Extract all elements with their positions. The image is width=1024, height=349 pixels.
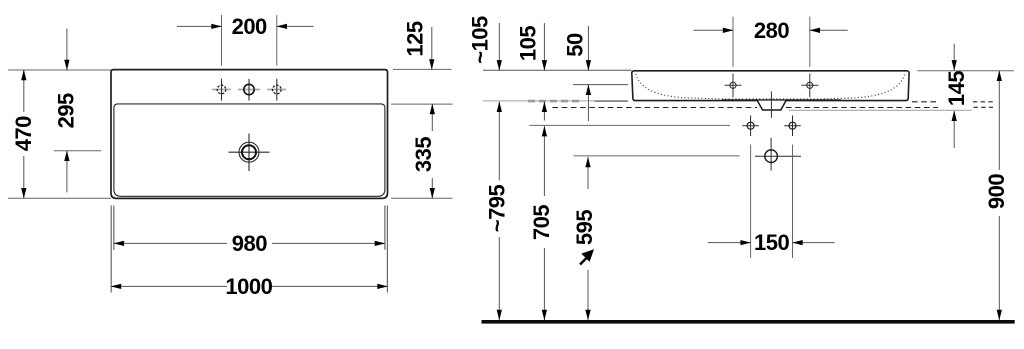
dim 595 xyxy=(587,157,589,189)
thick bottom middle segment xyxy=(722,99,841,101)
svg-text:900: 900 xyxy=(984,174,1009,209)
mounting hole left xyxy=(750,116,752,137)
basin body front xyxy=(632,71,909,101)
basin inner bowl xyxy=(114,104,385,196)
svg-text:145: 145 xyxy=(944,71,969,106)
faucet hole axis vertical lines xyxy=(221,79,223,101)
dim 150 xyxy=(708,242,751,244)
faucet mark left xyxy=(732,74,734,98)
mounting hole right xyxy=(792,116,794,137)
svg-text:470: 470 xyxy=(11,116,36,151)
svg-text:~105: ~105 xyxy=(468,16,493,64)
dim 295 xyxy=(66,29,68,71)
siphon outlet circle xyxy=(770,138,772,171)
svg-text:980: 980 xyxy=(232,231,267,256)
50 level line xyxy=(573,84,628,86)
drain axis line xyxy=(770,91,772,117)
svg-text:125: 125 xyxy=(402,21,427,56)
dim 280 xyxy=(694,29,734,31)
dim ~105 xyxy=(498,23,500,70)
floor line xyxy=(482,320,1015,324)
dim 200 extension lines xyxy=(221,15,223,66)
dim ~795 xyxy=(498,102,500,181)
dark segment before basin xyxy=(595,100,629,102)
dim 335 extension lines xyxy=(391,103,453,105)
faucet mark right xyxy=(809,74,811,98)
svg-text:1000: 1000 xyxy=(225,274,272,299)
svg-text:200: 200 xyxy=(232,14,267,39)
svg-text:~795: ~795 xyxy=(485,184,510,232)
svg-text:595: 595 xyxy=(572,210,597,245)
dim 900 xyxy=(998,71,1000,170)
drain outlet trapezoid xyxy=(757,101,786,110)
dim 280 extension lines xyxy=(732,17,734,67)
dim 595 extension line xyxy=(574,155,740,157)
dim 50 xyxy=(587,26,589,70)
svg-text:335: 335 xyxy=(411,137,436,172)
faucet hole middle xyxy=(244,84,254,94)
adjustable direction arrow xyxy=(580,258,587,265)
dim 105 xyxy=(543,23,545,70)
faucet hole left (dashed) xyxy=(217,85,226,94)
faucet hole axis gray lines xyxy=(212,89,231,91)
dim 335 xyxy=(431,104,433,131)
dim 145 xyxy=(953,44,955,71)
drain xyxy=(229,151,270,153)
svg-text:150: 150 xyxy=(754,230,789,255)
dim 980 xyxy=(114,242,227,244)
svg-text:105: 105 xyxy=(516,26,541,61)
dim 200 xyxy=(177,25,222,27)
svg-text:280: 280 xyxy=(754,18,789,43)
inner bowl dotted contour xyxy=(636,74,905,99)
dim 470 xyxy=(23,70,25,112)
dim 150 extension lines xyxy=(750,145,752,258)
dim 705 extension line xyxy=(529,124,730,126)
dim 705 xyxy=(543,126,545,196)
dim 900 extension line xyxy=(918,70,1014,72)
gray solid line right xyxy=(789,109,972,111)
dim 1000 extension lines xyxy=(110,206,112,293)
svg-text:50: 50 xyxy=(562,33,587,57)
black dashed reference line xyxy=(553,107,758,109)
faucet hole right (dashed) xyxy=(273,85,282,94)
gray thick dashes left xyxy=(528,100,583,103)
dim 125 xyxy=(393,68,452,70)
svg-text:295: 295 xyxy=(54,93,79,128)
dim 980 extension lines xyxy=(113,206,115,250)
basin outer rim xyxy=(111,70,388,199)
svg-text:705: 705 xyxy=(529,205,554,240)
short dashed line right of basin xyxy=(912,101,938,103)
dim 470 extension lines xyxy=(8,69,111,71)
gray bottom-of-basin line left xyxy=(483,100,628,102)
dim 1000 xyxy=(111,285,227,287)
top level extension (left of basin) xyxy=(483,69,632,71)
